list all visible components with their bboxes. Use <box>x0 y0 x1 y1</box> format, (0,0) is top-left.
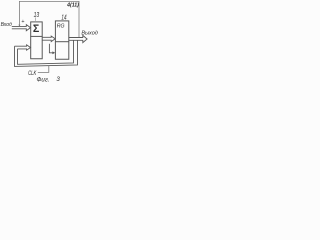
wire output bus arrow <box>69 35 87 42</box>
svg-text:CLK: CLK <box>28 70 37 77</box>
summer U1 box <box>31 22 43 37</box>
svg-text:RG: RG <box>57 24 65 30</box>
svg-text:Σ: Σ <box>33 23 40 35</box>
svg-text:+: + <box>21 19 24 25</box>
wire output feedback drop right line <box>15 40 78 66</box>
svg-text:4(11): 4(11) <box>66 2 79 8</box>
register U2 box <box>55 21 68 42</box>
svg-text:Вход: Вход <box>1 22 12 28</box>
node feedback arrowhead into summer input <box>18 25 20 27</box>
wire output feedback drop left line <box>18 40 74 64</box>
svg-text:3: 3 <box>56 76 60 83</box>
wire top feedback loop <box>19 1 79 37</box>
wire leader 13 <box>34 17 36 21</box>
svg-text:14: 14 <box>61 15 67 22</box>
wire carry arrow into register lower section <box>49 44 52 53</box>
register lower extension <box>55 42 68 60</box>
svg-text:Выход: Выход <box>81 31 98 37</box>
wire input bus arrow <box>12 25 31 31</box>
svg-text:Фиг.: Фиг. <box>37 77 50 84</box>
svg-text:13: 13 <box>34 11 40 19</box>
wire summer to register bus arrow <box>42 36 55 42</box>
summer lower extension <box>31 36 43 58</box>
wire clock drop <box>38 66 49 73</box>
wire feedback bus arrow into summer <box>15 45 31 50</box>
